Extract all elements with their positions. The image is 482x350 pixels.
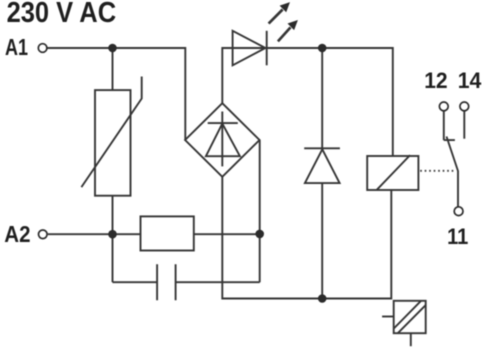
LED light arrow 1 (269, 10, 283, 24)
terminal 11 circle (454, 207, 463, 216)
varistor RV1 (95, 90, 131, 196)
wire varistor bottom to capacitor row (112, 196, 114, 283)
wire flyback diode top (321, 48, 323, 148)
wire bridge AC2 vertical (259, 140, 261, 282)
wire flyback diode bottom (321, 183, 323, 298)
terminal 12 circle (439, 102, 448, 111)
wire contact 14 (463, 111, 465, 139)
wire capacitor right (176, 281, 260, 283)
wire resistor to node (194, 233, 260, 235)
svg-text:A2: A2 (4, 221, 30, 247)
wire varistor top (112, 48, 114, 90)
node junction flyback tap (318, 44, 327, 53)
LED arrowhead 1 (280, 2, 290, 12)
svg-text:A1: A1 (5, 34, 28, 60)
wire bottom bus bridge DC- to coil bottom (222, 177, 391, 299)
bridge rectifier B1 (185, 103, 259, 177)
LED D2 (233, 31, 267, 66)
resistor R1 (141, 216, 194, 250)
LED light arrow 2 (278, 27, 291, 41)
svg-text:11: 11 (447, 224, 468, 249)
mechanical link (dotted) (420, 170, 455, 172)
LED arrowhead 2 (288, 20, 298, 30)
wire capacitor left (113, 281, 158, 283)
capacitor C1 (157, 264, 176, 300)
node junction bottom bus (318, 294, 327, 303)
wire bridge DC+ up, LED bus, down to coil top (222, 48, 392, 156)
svg-text:12: 12 (424, 68, 447, 93)
svg-text:230 V AC: 230 V AC (7, 0, 117, 29)
contact lever 11 (447, 137, 459, 207)
relay coil K1 (367, 155, 418, 190)
terminal A1 circle (38, 44, 47, 53)
node junction varistor tap (108, 44, 117, 53)
terminal A2 circle (39, 230, 48, 239)
wire A2 to resistor (48, 233, 141, 235)
svg-text:14: 14 (458, 68, 482, 93)
diode D1 (304, 148, 340, 183)
terminal 14 circle (460, 102, 469, 111)
node junction A2 (108, 230, 117, 239)
wire contact 12 with stop bar (444, 111, 455, 140)
node junction bridge AC2 (255, 230, 264, 239)
relay output element symbol (382, 301, 426, 346)
wire A1 top bus to bridge AC1 (47, 48, 185, 140)
